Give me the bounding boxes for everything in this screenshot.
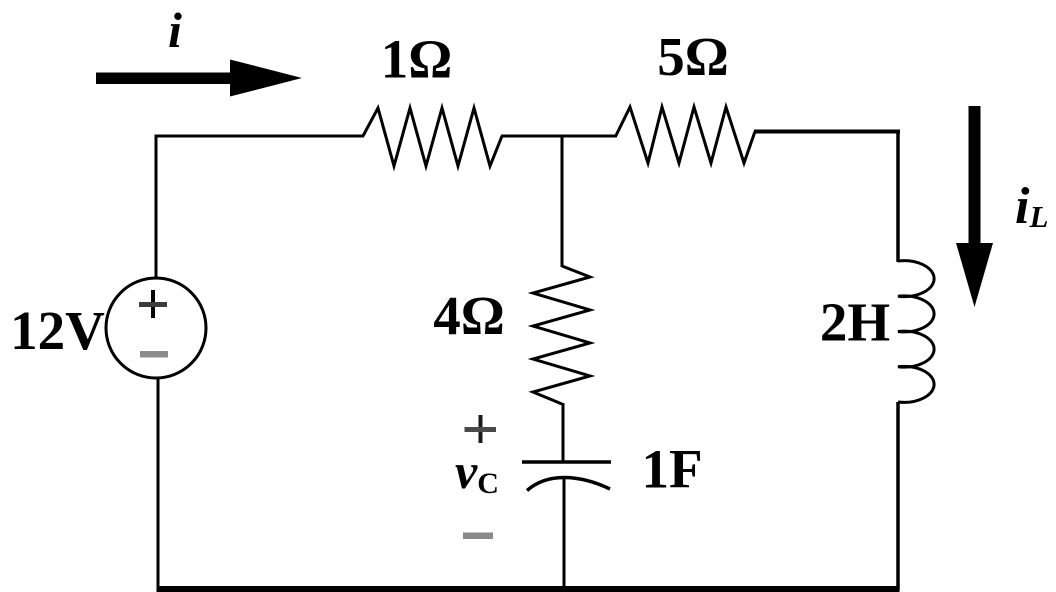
wire left vertical lower xyxy=(157,377,160,591)
wire left vertical upper xyxy=(155,135,158,280)
svg-text:1F: 1F xyxy=(641,439,702,500)
voltage source minus sign xyxy=(140,351,168,358)
wire top-right horizontal xyxy=(754,130,900,134)
wire top-middle horizontal xyxy=(501,135,617,138)
inductor L 2H xyxy=(898,261,934,403)
voltage source plus sign xyxy=(139,290,167,318)
svg-text:5Ω: 5Ω xyxy=(657,26,729,87)
wire right vertical lower xyxy=(896,402,900,590)
wire middle vertical upper xyxy=(561,135,564,268)
svg-text:4Ω: 4Ω xyxy=(433,285,505,346)
current arrow i (head) xyxy=(230,60,302,97)
capacitor C top plate xyxy=(522,460,611,464)
svg-text:vC: vC xyxy=(455,443,499,500)
wire middle vertical between resistor and capacitor xyxy=(562,403,565,462)
svg-text:i: i xyxy=(168,2,182,58)
capacitor C bottom plate (curved) xyxy=(527,478,610,491)
wire middle vertical lower (capacitor to bottom rail) xyxy=(563,478,566,590)
capacitor minus label xyxy=(463,533,493,540)
voltage source 12V circle xyxy=(106,278,206,378)
svg-text:1Ω: 1Ω xyxy=(381,29,453,90)
svg-text:12V: 12V xyxy=(10,300,105,361)
svg-text:2H: 2H xyxy=(820,292,890,353)
current arrow iL (head) xyxy=(956,243,993,307)
current arrow i (shaft) xyxy=(96,73,232,85)
current arrow iL (shaft) xyxy=(969,106,981,244)
svg-text:iL: iL xyxy=(1015,178,1048,235)
wire top-left horizontal xyxy=(155,135,365,138)
wire right vertical upper xyxy=(896,130,900,263)
resistor 1ohm xyxy=(363,108,502,166)
wire bottom rail xyxy=(157,586,900,592)
capacitor plus label xyxy=(465,415,497,443)
resistor 4ohm xyxy=(533,266,590,404)
resistor 5ohm xyxy=(616,107,755,163)
